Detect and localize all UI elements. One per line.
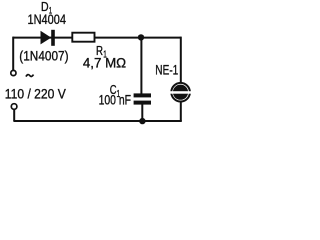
label D1	[41, 0, 52, 16]
svg-text:1N4004: 1N4004	[28, 12, 67, 27]
diode D1	[41, 30, 55, 46]
terminal lower	[11, 104, 17, 110]
lamp NE-1	[168, 83, 193, 102]
resistor R1	[72, 33, 94, 42]
label C1	[110, 82, 121, 100]
svg-text:100 nF: 100 nF	[99, 93, 131, 108]
terminal upper	[11, 70, 16, 75]
wire capacitor branch upper	[140, 38, 142, 94]
wire left vertical	[12, 37, 14, 71]
label R1	[96, 43, 107, 60]
wire top horizontal	[13, 37, 181, 39]
svg-text:110 / 220 V: 110 / 220 V	[5, 87, 66, 103]
wire capacitor branch lower	[141, 104, 143, 121]
wire right vertical upper	[180, 37, 182, 83]
ac tilde symbol	[26, 75, 34, 77]
node junction bottom	[139, 118, 145, 124]
node junction top	[138, 34, 144, 40]
svg-text:NE-1: NE-1	[155, 63, 178, 78]
wire terminal stub	[13, 109, 15, 121]
svg-text:(1N4007): (1N4007)	[19, 48, 68, 63]
wire right vertical lower	[180, 102, 182, 121]
svg-text:4,7 MΩ: 4,7 MΩ	[83, 56, 126, 71]
wire bottom horizontal	[13, 120, 181, 122]
capacitor C1	[134, 93, 151, 104]
